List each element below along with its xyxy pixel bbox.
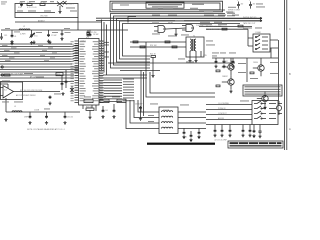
ground T1 ground 1 [188,59,191,62]
labels around gates [152,22,159,25]
ground C71 ground [189,138,192,141]
wire long line B [0,77,74,79]
svg-text:470: 470 [241,4,244,6]
ground Q4 ground [229,90,232,93]
resistor boxes on T1 feed [133,41,138,43]
dashed unit outer box [110,1,223,12]
svg-text:NOTE: VOLTAGES MEASURED AT P.O: NOTE: VOLTAGES MEASURED AT P.O.S.-1 [27,128,65,131]
right edge net labels [256,6,265,9]
capacitor C92 [229,129,232,133]
title block divider [228,143,283,145]
jack contact 4 [255,47,268,49]
svg-text:.02 C94 .05 47MF: .02 C94 .05 47MF [214,140,227,142]
svg-text:470: 470 [253,4,256,6]
wire C71 drop [190,131,192,134]
wire port line 2 [0,69,74,71]
labels below IC and filter [84,96,91,99]
svg-text:X1 450: X1 450 [91,32,96,34]
pin stub [74,71,79,73]
svg-text:OSC MIX: OSC MIX [40,16,48,18]
switch feed wire 1 [206,104,252,106]
wire IC1 bottom stub [83,105,96,111]
Q4 wires [222,75,231,89]
wire r40 down [89,110,91,115]
jack contact 3 [255,43,268,45]
switch pole 3 [254,111,276,114]
svg-text:AM FM: AM FM [218,117,224,120]
svg-text:+: + [237,0,238,2]
wire tuned line [1,29,128,31]
resistor R40 [86,108,94,110]
inner corner box [128,17,136,23]
ground C91 ground [220,134,223,137]
svg-text:4.7MH: 4.7MH [20,34,26,36]
capacitor C7 [47,34,50,38]
ground VC1 ground [30,41,33,44]
svg-text:IC1: IC1 [86,37,89,39]
ground Q6 ground [263,106,266,109]
svg-text:C88: C88 [19,2,22,4]
wire v stub2 [113,104,115,112]
title block text row 2 [230,145,282,147]
resistor R52 [250,72,254,74]
capacitor C4 mid cluster [61,30,64,36]
svg-text:2SB367: 2SB367 [222,61,228,63]
svg-text:4.7K C3 .01: 4.7K C3 .01 [27,7,37,9]
jack J1 box [253,34,270,52]
capacitor C93 [242,129,245,133]
ground G3 [48,41,51,44]
nested routed wire 5 [123,24,241,57]
routed wire to filter 4 [138,100,159,112]
wire bus line 2 [0,48,72,50]
nested routed wire 1 [111,14,226,69]
svg-text:C67 10MF: C67 10MF [135,104,142,106]
nested routed wire 4 [120,21,263,59]
bus line labels left [2,44,8,47]
svg-text:R8 2.2K IF AMP: R8 2.2K IF AMP [11,73,24,76]
gate U2B NAND [182,25,194,32]
wire antenna box right drop [77,18,79,31]
wire ic1 right row 3 [104,87,123,89]
ground C82 ground [231,65,234,68]
pin stub [74,66,79,68]
ground C72 ground [197,135,200,138]
capacitor C60 [29,115,32,119]
transistor Q1 oscillator [57,2,63,11]
ground C92 ground [228,134,231,137]
ground T1 ground 2 [194,59,197,62]
wire long line A [0,74,74,76]
wire C94 drop [249,125,251,130]
wire audio out line [6,111,80,113]
wire stub [31,30,33,34]
resistor R1 [27,4,32,6]
wire C91 drop [221,125,223,130]
svg-text:PUSH IN: PUSH IN [218,108,226,110]
FL1 row output wire [178,128,206,130]
wire mid wire2 [206,28,248,30]
wire long wire top1 [96,17,262,19]
net arrow labels mid rows [227,12,235,15]
resistor R51 [216,85,220,87]
wire v2 [65,70,67,88]
capacitor C80 [215,60,218,64]
ground C90 ground [213,134,216,137]
svg-text:C: C [289,27,291,31]
FL1 row output wire [178,111,206,113]
net arrow 2 [260,20,262,22]
capacitor C50 [49,96,52,100]
T1 windings [190,39,192,51]
label boxes row [84,99,93,102]
wire v stub [102,106,104,112]
IC1 right net labels [104,42,110,43]
wire L route [146,42,215,97]
capacitor C67 [139,106,142,110]
svg-text:AM ANT: AM ANT [38,20,46,23]
wire c67 [140,110,142,118]
ground cluster ground [61,92,64,95]
ground C93 ground [241,134,244,137]
ground C67 ground [139,117,142,120]
svg-text:C65: C65 [105,110,108,112]
wire ic1 right row 1 [104,82,123,84]
bus riser 2 [72,48,79,49]
wire d2 [46,112,48,115]
wire sw drop [253,125,255,130]
net wire SPKR [199,9,260,11]
vertical bus wires [102,20,107,76]
wire bus line 3 [0,51,72,53]
FL1 winding row 4 [162,127,173,128]
wire d1 [29,112,31,115]
wire ic1 right row 0 [104,79,123,81]
filter FL1 box [159,107,178,134]
IC1 pins right [99,41,104,103]
ground C50 ground [48,102,51,105]
note box [243,85,282,96]
ground gate ground [174,33,177,36]
ground Q1 emitter ground [58,10,61,13]
antenna input circle2 [1,74,3,76]
bus riser 4 [72,53,79,54]
routed wire to filter 1 [126,100,159,129]
capacitor C94 [249,129,252,133]
pin stub [74,69,79,71]
switch pole 1 [254,101,276,104]
svg-text:R22 1K: R22 1K [150,54,157,56]
capacitor C90 [214,129,217,133]
bus riser 3 [72,50,79,51]
capacitor C71 [190,134,193,138]
svg-text:B: B [289,72,291,76]
junction dot [89,29,90,30]
ground G1 [10,42,13,45]
wire stub [11,30,13,34]
svg-text:L5: L5 [14,106,16,108]
switch S1 box [252,101,278,125]
wire C90 drop [214,125,216,130]
ground C66 ground [112,115,115,118]
svg-text:IC2: IC2 [4,90,7,92]
op-amp IC2 triangle [3,86,14,99]
wire long line A2 [103,74,147,76]
wire C93 drop [242,125,244,130]
wire opamp out wire [20,91,61,93]
wire vertical pair down to filter [141,70,144,116]
inductor L2 ferrite bar [19,29,30,30]
wire gate drop [175,29,177,33]
wire ic1 right row 2 [104,84,123,86]
wire AM antenna link [15,21,102,23]
resistor R8 [4,74,10,76]
ground R22 ground [151,74,154,77]
ground L5 left ground [4,118,7,121]
variable capacitor VC1 [30,33,35,38]
wire long mid wire2 [120,70,160,72]
junction dots row [215,18,216,19]
wire stub [89,30,91,33]
ground C6 ground [10,40,13,43]
net arrow 1 [260,17,262,19]
labels opamp region [2,80,10,83]
transistor Q3 [228,64,234,70]
svg-text:R40 220: R40 220 [86,107,92,109]
capacitor C5 left edge [0,33,3,40]
wire output stage vertical [246,58,248,82]
bus riser 7 [72,60,79,61]
svg-text:CCW ROT: CCW ROT [218,113,227,115]
wire stub [48,30,50,34]
IC1 right pin numbers [100,40,103,43]
title box text [148,4,182,5]
transformer T1 box [186,37,204,57]
wire T1 left wire2 [130,46,186,48]
svg-text:2SC1675: 2SC1675 [66,4,74,6]
capacitor C65 [102,109,105,113]
ground R40 ground [88,116,91,119]
title block box [228,141,283,148]
wire sw drop2 [259,125,261,130]
frame border right double line [285,0,287,150]
title block text row 1 [230,142,282,144]
nested routed wire 2 [114,16,226,65]
IC1 left outside pin numbers [71,40,74,43]
gate U2A NAND [154,26,166,33]
ground C65 ground [101,115,104,118]
ground C70 ground [182,135,185,138]
dashed unit inner box line [112,3,220,10]
wire port line extra [0,81,74,83]
ground C94 ground [248,134,251,137]
wire v1 [61,76,63,90]
svg-text:R4 100: R4 100 [40,2,46,4]
wire bus line 4 [0,53,72,55]
svg-text:AF OUT: AF OUT [30,76,36,79]
wire C80 [215,58,217,60]
wire ic1 right row 6 [104,95,123,97]
svg-text:J1 EAR: J1 EAR [255,31,262,34]
Q6 wires [257,91,265,105]
labels caps under tuned line [14,31,20,34]
svg-text:TAPE REC OUT: TAPE REC OUT [243,22,255,25]
op-amp module enclosure [1,82,23,100]
capacitor C8 [89,33,92,37]
dial pointer mark [120,5,129,6]
wire bus line 5 [0,56,72,58]
wire rail top [212,57,278,59]
wire mid wire [199,26,252,28]
Q5 wires [253,58,261,76]
Q3 wires [222,58,231,75]
FL1 winding row 2 [162,116,173,117]
wire jack feed [248,38,278,48]
svg-text:C62 220: C62 220 [67,117,73,119]
ground C81 ground [222,65,225,68]
bus riser 6 [72,58,79,59]
ground C61 ground [45,121,48,124]
wire gate link [166,28,186,29]
resistor R2 [40,4,45,6]
dial lamp label top box [192,4,204,5]
svg-text:PHONE JACK 8D: PHONE JACK 8D [243,16,257,19]
FL1 row output wire [178,117,206,119]
resistor R30 [56,73,63,76]
FL1 winding row 1 [162,111,173,112]
capacitor C61 [45,115,48,119]
IC IC1 box [79,39,100,106]
resistor R15 [222,28,227,30]
jack contact 1 [255,35,268,37]
svg-text:BPF: BPF [57,74,60,76]
ground C4 ground [60,37,63,40]
wire bus line 6 [0,58,72,60]
capacitor C62 [64,115,67,119]
switch pole 2 [254,106,276,109]
wire jack riser [247,29,249,46]
svg-text:A: A [289,127,291,131]
wire ic1 right row 4 [104,90,123,92]
capacitor C81 [223,60,226,64]
wire bus line 7 [0,61,72,63]
svg-text:.02 .05: .02 .05 [182,137,187,139]
ground C60 ground [28,121,31,124]
FL1 winding row 3 [162,122,173,123]
IC1 pins left [75,41,79,103]
ground C62 ground [63,121,66,124]
resistor R20 [165,41,170,43]
capacitor C6 [11,34,14,38]
wire ic1 right row 7 [104,98,123,100]
routed wire to filter 2 [130,100,159,123]
svg-text:S1: S1 [263,99,265,101]
wire port line 1 [0,66,74,68]
wire opamp down [5,98,7,112]
diode D1 [70,86,74,94]
capacitor C1 [20,3,23,7]
antenna input circle [1,66,3,68]
resistor R21 [172,46,177,48]
jack contact 2 [255,39,268,41]
note box text row 2 [245,89,281,90]
capacitor C66 [113,109,116,113]
switch right wires [278,104,282,114]
transistor Q5 [258,65,264,71]
routed wire to filter 3 [134,100,159,118]
wire C82 [232,58,234,60]
capacitor C32 [65,80,68,84]
svg-text:47MF: 47MF [24,117,28,119]
wire L route2 [150,72,215,93]
T1 bottom leads [190,51,201,59]
wire long line B2 [103,77,147,79]
svg-text:2SD30: 2SD30 [253,62,258,64]
switch pole 4 [254,116,276,119]
bus riser 5 [72,55,79,56]
speaker SP1 [276,105,281,110]
labels output stage [212,52,219,55]
FL1 row output wire [178,122,206,124]
note box text row 3 [245,91,281,92]
capacitor C72 [198,131,201,135]
svg-text:+: + [249,0,250,2]
note box text row 1 [245,86,281,87]
wire ic1 right row 8 [104,101,123,103]
wire C81 [223,58,225,60]
svg-text:AF POWER AMP 2SB324: AF POWER AMP 2SB324 [16,94,36,97]
ground G2 [32,41,35,44]
extra bus lines [0,43,72,45]
title block text gaps [237,142,240,144]
ground C95 ground [252,134,255,137]
capacitor C41 [249,2,252,9]
svg-text:C7 60P: C7 60P [51,35,58,37]
capacitor C31 [61,82,64,86]
inductor L5 [12,111,22,112]
svg-text:C8 30P: C8 30P [93,34,100,36]
extra mid-right label rows [150,7,158,10]
ground C96 ground [258,135,261,138]
wire port line 3 [0,71,74,73]
switch feed wire 4 [206,119,252,121]
labels around T1 [181,34,189,37]
wire jack vertical 2 [270,48,272,58]
wire C92 drop [229,125,231,130]
bus riser 1 [72,45,79,46]
wire long mid wire [108,62,235,64]
svg-text:CF1: CF1 [4,35,7,37]
electrolytic C96 [258,129,261,134]
wire bus line 1 [0,46,72,48]
svg-text:L2: L2 [23,26,25,28]
transistor Q4 [228,79,234,85]
capacitor C70 [183,131,186,135]
svg-text:2SB367: 2SB367 [222,76,228,78]
capacitor C40 [237,2,240,9]
nested routed wire 3 [117,19,263,63]
heavy section divider bar [147,143,215,145]
svg-text:T1: T1 [193,36,195,38]
junction dots on audio line [30,112,31,113]
T1 core lines [193,39,194,51]
transistor Q6 [262,95,268,101]
wire C70 drop [183,128,185,131]
svg-text:T5 455K: T5 455K [163,110,170,112]
wire long wire top2 [96,20,262,22]
note box text row 4 [245,94,281,95]
svg-text:R20 10K: R20 10K [150,45,157,47]
